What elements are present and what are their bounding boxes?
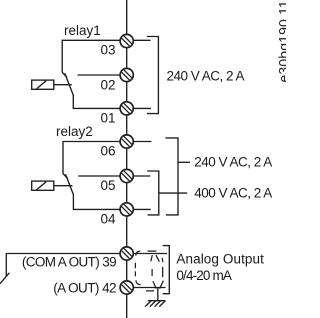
arrow down right leg — [160, 281, 164, 289]
terminal 03 — [120, 34, 133, 47]
pointer tick 400V relay2 — [159, 192, 187, 194]
svg-text:04: 04 — [100, 212, 116, 227]
wire terminal 42 right — [133, 287, 166, 289]
relay coil K2 — [32, 181, 54, 190]
svg-text:03: 03 — [100, 43, 115, 58]
pointer tick 240V relay2 — [178, 161, 190, 163]
terminal 04 — [120, 203, 133, 216]
wire stub terminal 06 right — [133, 141, 151, 143]
current source dashed top edge — [148, 250, 157, 252]
svg-text:e30bg190.11: e30bg190.11 — [276, 0, 286, 82]
bracket relay2 240V rating — [166, 138, 179, 215]
wire break slash bottom left — [0, 273, 9, 284]
terminal 02 — [120, 68, 133, 81]
arrow up left leg — [151, 255, 153, 261]
wire relay1 arm to terminal 01 — [73, 95, 120, 109]
current source dashed bottom edge — [146, 290, 154, 292]
svg-text:(COM A OUT) 39: (COM A OUT) 39 — [22, 254, 116, 269]
svg-text:06: 06 — [100, 144, 115, 159]
ground hatch 2 — [150, 301, 156, 307]
dashed shaft right — [162, 267, 164, 277]
wire ground lead — [157, 288, 159, 301]
current source dashed left edge upper — [134, 263, 136, 269]
svg-text:Analog Output: Analog Output — [176, 251, 264, 266]
arrow up right leg — [156, 255, 160, 262]
contact tick relay2 NC — [63, 174, 68, 179]
svg-text:01: 01 — [100, 111, 115, 126]
svg-text:0/4-20 mA: 0/4-20 mA — [176, 268, 231, 283]
terminal 06 — [120, 135, 133, 148]
svg-text:240 V AC, 2 A: 240 V AC, 2 A — [167, 68, 245, 83]
ground hatch 4 — [159, 301, 165, 307]
terminal 05 — [120, 169, 133, 182]
relay1 switch arm — [65, 73, 74, 95]
current source dashed left edge lower — [134, 271, 136, 276]
svg-text:relay2: relay2 — [56, 124, 93, 139]
wire vertical terminal bus — [126, 0, 128, 318]
dashed shaft left — [151, 269, 153, 276]
wire relay2 arm to terminal 04 — [73, 194, 120, 209]
bracket relay2 400V rating — [147, 171, 159, 215]
wire terminal 39 left — [6, 254, 120, 277]
wire terminal 02 NO contact — [78, 74, 121, 76]
svg-text:240 V AC, 2 A: 240 V AC, 2 A — [194, 155, 272, 170]
relay coil K1 diagonal — [37, 81, 47, 89]
relay2 switch arm — [66, 174, 74, 194]
current source dashed corner top-left — [136, 251, 141, 256]
wire stub terminal 04 right — [133, 208, 151, 210]
arrow down left leg — [153, 281, 156, 288]
dashed right edge upper — [161, 258, 164, 262]
bracket analog output — [163, 246, 170, 294]
svg-text:05: 05 — [100, 178, 115, 193]
terminal 39 — [120, 247, 133, 260]
bracket relay1 rating — [147, 37, 159, 114]
ground hatch 3 — [155, 301, 161, 307]
relay coil K2 diagonal — [37, 182, 47, 190]
ground bar — [148, 300, 166, 302]
current source dashed corner bottom-left — [136, 280, 141, 285]
wire stub terminal 03 right — [133, 39, 151, 41]
svg-text:(A OUT) 42: (A OUT) 42 — [53, 280, 116, 295]
wire stub terminal 01 right — [133, 107, 151, 109]
mechanical link relay1 — [54, 84, 72, 86]
svg-text:02: 02 — [100, 78, 115, 93]
wire terminal 39 right — [133, 253, 167, 255]
contact tick relay1 NC — [62, 72, 67, 77]
wire stub terminal 05 right — [133, 175, 150, 177]
svg-text:400 V AC, 2 A: 400 V AC, 2 A — [194, 185, 272, 200]
mechanical link relay2 — [54, 185, 73, 187]
terminal 42 — [120, 281, 133, 294]
wire terminal 03 to NC contact — [62, 40, 120, 72]
relay coil K1 — [32, 80, 54, 89]
terminal 01 — [120, 102, 133, 115]
ground hatch 1 — [145, 301, 151, 307]
svg-text:relay1: relay1 — [64, 23, 101, 38]
wire terminal 05 NO contact — [78, 175, 120, 177]
wire terminal 06 to NC contact — [63, 142, 121, 174]
